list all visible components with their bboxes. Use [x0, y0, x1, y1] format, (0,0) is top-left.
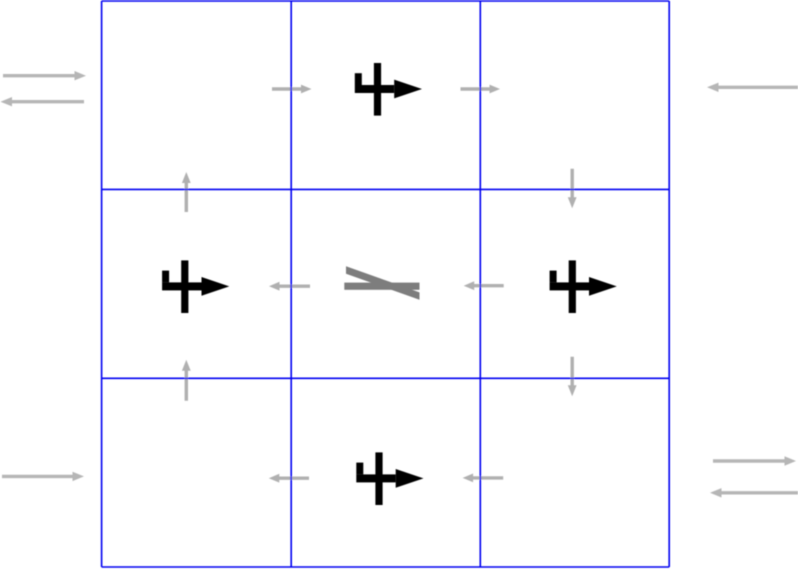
outer flux arrow left-top left-pointing — [1, 97, 85, 106]
airplane glyph middle-right cell — [550, 260, 617, 313]
crossed gray bars in center cell diagonal bar — [346, 266, 420, 300]
boundary arrow middle row left-pointing at x=291 — [269, 282, 310, 291]
boundary arrow up-pointing at x=186 bottom — [182, 360, 191, 401]
boundary arrow down-pointing at x=572 top — [568, 169, 577, 209]
outer flux arrow right-top left-pointing — [707, 83, 798, 92]
boundary arrow top row right-pointing at x=291 — [272, 85, 312, 94]
outer flux arrow right-bottom right-pointing — [713, 456, 796, 465]
outer flux arrow left-top right-pointing — [3, 71, 86, 80]
outer flux arrow left-bottom right-pointing — [2, 472, 84, 481]
boundary arrow top row right-pointing at x=480 — [461, 85, 501, 94]
airplane glyph bottom-middle cell — [356, 452, 423, 505]
grid vertical line x=101.6 — [101, 1, 103, 567]
airplane glyph top-middle cell — [355, 63, 422, 116]
boundary arrow bottom row left-pointing at x=480 — [463, 474, 504, 483]
boundary arrow middle row left-pointing at x=480 — [464, 281, 504, 290]
boundary arrow up-pointing at x=186 top — [182, 172, 191, 212]
grid horizontal line y=189.4 — [102, 188, 670, 190]
grid horizontal line y=378.3 — [102, 377, 670, 379]
grid vertical line x=291.2 — [290, 1, 292, 567]
outer flux arrow right-bottom left-pointing — [710, 488, 798, 497]
boundary arrow bottom row left-pointing at x=291 — [269, 474, 309, 483]
airplane glyph middle-left cell — [162, 260, 229, 313]
grid horizontal line y=1 — [102, 0, 670, 2]
crossed gray bars in center cell horizontal bar — [344, 283, 419, 290]
grid vertical line x=480.3 — [479, 1, 481, 567]
boundary arrow down-pointing at x=572 bottom — [568, 357, 577, 396]
grid horizontal line y=567 — [102, 566, 670, 568]
grid vertical line x=669.2 — [668, 1, 670, 567]
